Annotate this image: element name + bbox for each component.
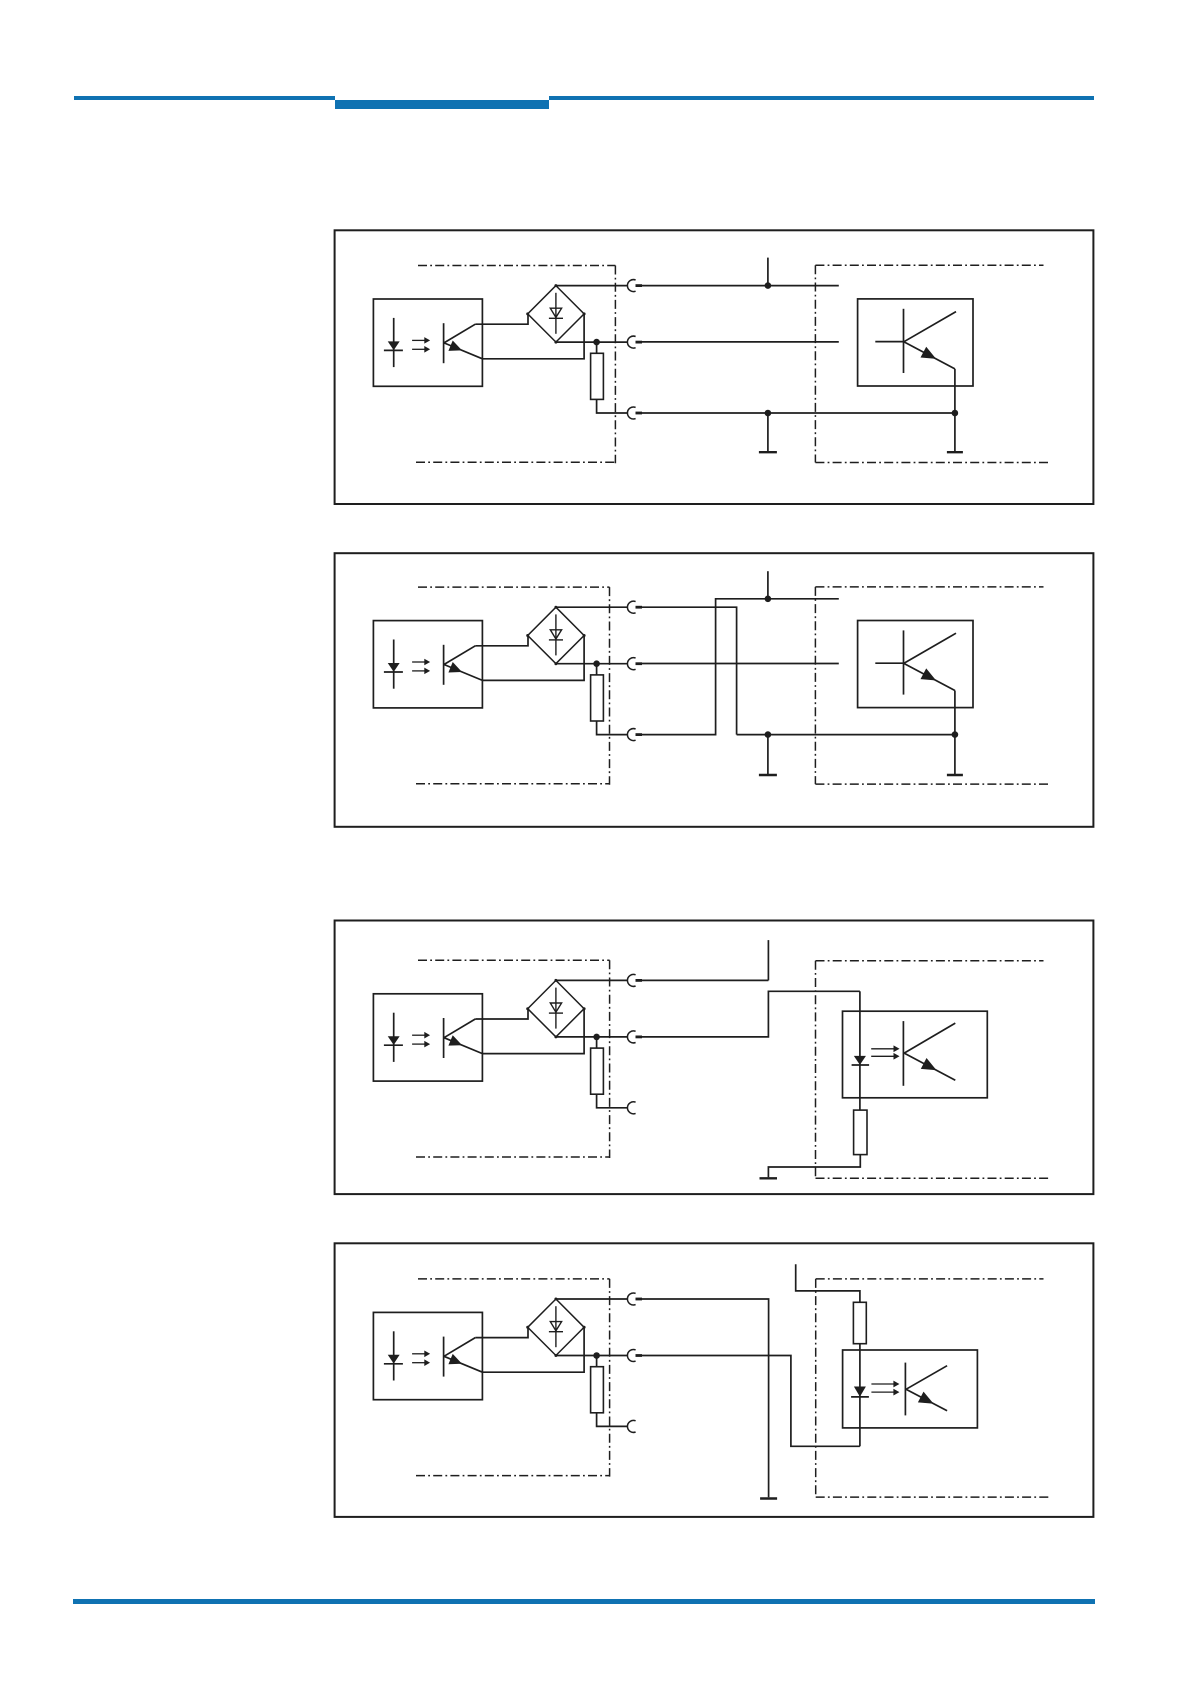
PLC-side boundary (dash-dot) diagram 2: [416, 587, 610, 785]
phototransistor (diagram 3): [903, 1021, 955, 1086]
wire: U1 emitter to bridge: [482, 314, 584, 359]
connector pin 3 (diagram 4): [627, 1420, 635, 1432]
wire: +24V line (diagram 3): [642, 940, 768, 980]
wire: U4 emitter to bridge: [482, 1327, 584, 1372]
load box (right optocoupler, diagram 3): [843, 1011, 988, 1098]
PLC-side boundary (dash-dot) diagram 3: [416, 960, 610, 1158]
resistor R2: [591, 664, 604, 721]
light emission arrows U4: [412, 1351, 429, 1365]
resistor R4: [591, 1356, 604, 1413]
wire: bridge bottom to pin 2: [556, 341, 628, 343]
light emission arrows U1: [412, 338, 429, 352]
wire: +24V line (diagram 1): [642, 258, 839, 286]
LED of U3: [384, 1013, 403, 1062]
connector pin 2 (diagram 1): [627, 336, 642, 348]
wire: U2 emitter to bridge: [482, 636, 584, 681]
connector pin 1 (diagram 3): [627, 974, 642, 986]
field-side boundary (dash-dot) diagram 3: [816, 961, 1050, 1179]
node: bridge/resistor junction: [593, 339, 600, 346]
wire: bridge top to pin 1: [556, 1298, 628, 1300]
field-side boundary (dash-dot) diagram 2: [815, 587, 1049, 784]
wire: bridge bottom to pin 2: [556, 1036, 628, 1038]
ground (diagram 3): [760, 1177, 778, 1179]
node: bridge/resistor junction: [593, 1034, 600, 1041]
light emission arrows U2: [412, 659, 429, 673]
junction at Q2 emitter: [952, 731, 959, 738]
wire: U2 collector to bridge: [475, 636, 528, 646]
light arrows (diagram 4): [871, 1381, 898, 1395]
load box (right optocoupler, diagram 4): [843, 1350, 978, 1428]
wire: resistor to pin 3: [597, 1094, 628, 1108]
wire: signal line (diagram 1): [642, 341, 839, 343]
phototransistor of U3: [444, 1018, 483, 1058]
connector pin 3 (diagram 1): [627, 407, 642, 419]
wire: bridge bottom to pin 2: [556, 663, 628, 665]
wire: 0V bottom rail (diagram 2): [737, 734, 955, 736]
connector pin 1 (diagram 1): [627, 280, 642, 292]
optocoupler U4 package: [373, 1312, 482, 1399]
node: bridge/resistor junction: [593, 660, 600, 667]
junction on 0V line (diagram 1): [765, 410, 772, 417]
phototransistor (diagram 4): [905, 1363, 947, 1416]
LED of U4: [384, 1331, 403, 1380]
connector pin 2 (diagram 4): [627, 1350, 642, 1362]
wire: resistor to pin 3: [597, 399, 628, 413]
phototransistor of U2: [444, 645, 483, 685]
connector pin 2 (diagram 2): [627, 658, 642, 670]
wire: bridge bottom to pin 2: [556, 1355, 628, 1357]
resistor R4b (load): [853, 1302, 866, 1343]
bridge rectifier B4: [526, 1298, 585, 1358]
bridge rectifier B3: [526, 979, 585, 1039]
wire: bridge top to pin 1: [556, 285, 628, 287]
connector pin 1 (diagram 4): [627, 1293, 642, 1305]
wire: U4 collector to bridge: [475, 1327, 528, 1337]
photodiode (diagram 3): [852, 991, 870, 1110]
ground (diagram 4): [760, 1497, 777, 1499]
light emission arrows U3: [412, 1033, 429, 1047]
LED of U2: [384, 640, 403, 689]
transistor Q1 (NPN output): [875, 309, 956, 413]
LED of U1: [384, 318, 403, 367]
PLC-side boundary (dash-dot) diagram 4: [416, 1279, 610, 1477]
resistor R1: [591, 342, 604, 399]
node: bridge/resistor junction: [593, 1352, 600, 1359]
connector pin 3 (diagram 3): [627, 1102, 635, 1114]
wire: crossover to 0V rail (diagram 2): [642, 599, 839, 735]
resistor R3b (load): [854, 1110, 867, 1155]
wire: bridge top to pin 1: [556, 606, 628, 608]
field-side boundary (dash-dot) diagram 1: [815, 265, 1049, 462]
wire: +24V feed (diagram 4): [796, 1264, 860, 1302]
transistor Q2 (NPN output): [875, 630, 956, 734]
wire: 0V line (diagram 1): [642, 412, 955, 414]
junction at Q1 emitter: [952, 410, 959, 417]
wire: load resistor to ground (diagram 3): [768, 1155, 860, 1178]
light arrows (diagram 3): [871, 1046, 899, 1059]
wire: +24V stub (diagram 2): [767, 571, 769, 599]
connector pin 1 (diagram 2): [627, 601, 642, 613]
optocoupler U1 package: [373, 299, 482, 386]
photodiode (diagram 4): [851, 1344, 869, 1447]
field-side boundary (dash-dot) diagram 4: [816, 1279, 1049, 1497]
bridge rectifier B1: [526, 284, 585, 344]
junction on +24V line (diagram 2): [765, 596, 772, 603]
PLC-side boundary (dash-dot) diagram 1: [416, 266, 615, 464]
phototransistor of U1: [444, 323, 483, 363]
optocoupler U2 package: [373, 621, 482, 708]
ground (right, diagram 2): [947, 735, 963, 775]
wire: resistor to pin 3: [597, 1413, 628, 1427]
wire: resistor to pin 3: [597, 721, 628, 735]
resistor R3: [591, 1037, 604, 1094]
bridge rectifier B2: [526, 606, 585, 666]
sensor output stage box (diagram 1): [858, 299, 973, 386]
junction on 0V rail (diagram 2): [765, 731, 772, 738]
phototransistor of U4: [444, 1337, 483, 1377]
optocoupler U3 package: [373, 994, 482, 1081]
wire: pin1 to ground (diagram 4): [642, 1299, 769, 1497]
connector pin 3 (diagram 2): [627, 729, 642, 741]
ground (right, diagram 1): [947, 413, 963, 452]
wire: U3 collector to bridge: [475, 1009, 528, 1019]
wire: signal line (diagram 4): [642, 1356, 860, 1447]
wire: pin1 to crossover (diagram 2): [642, 607, 737, 734]
ground (left, diagram 2): [759, 735, 777, 775]
wire: U1 collector to bridge: [475, 314, 528, 324]
wire: signal line (diagram 3): [642, 991, 860, 1037]
ground (left, diagram 1): [759, 413, 777, 452]
wire: signal line (diagram 2): [642, 663, 839, 665]
junction on +24V line (diagram 1): [765, 282, 772, 289]
sensor output stage box (diagram 2): [858, 621, 973, 708]
wire: U3 emitter to bridge: [482, 1009, 584, 1054]
wire: bridge top to pin 1: [556, 979, 628, 981]
connector pin 2 (diagram 3): [627, 1031, 642, 1043]
